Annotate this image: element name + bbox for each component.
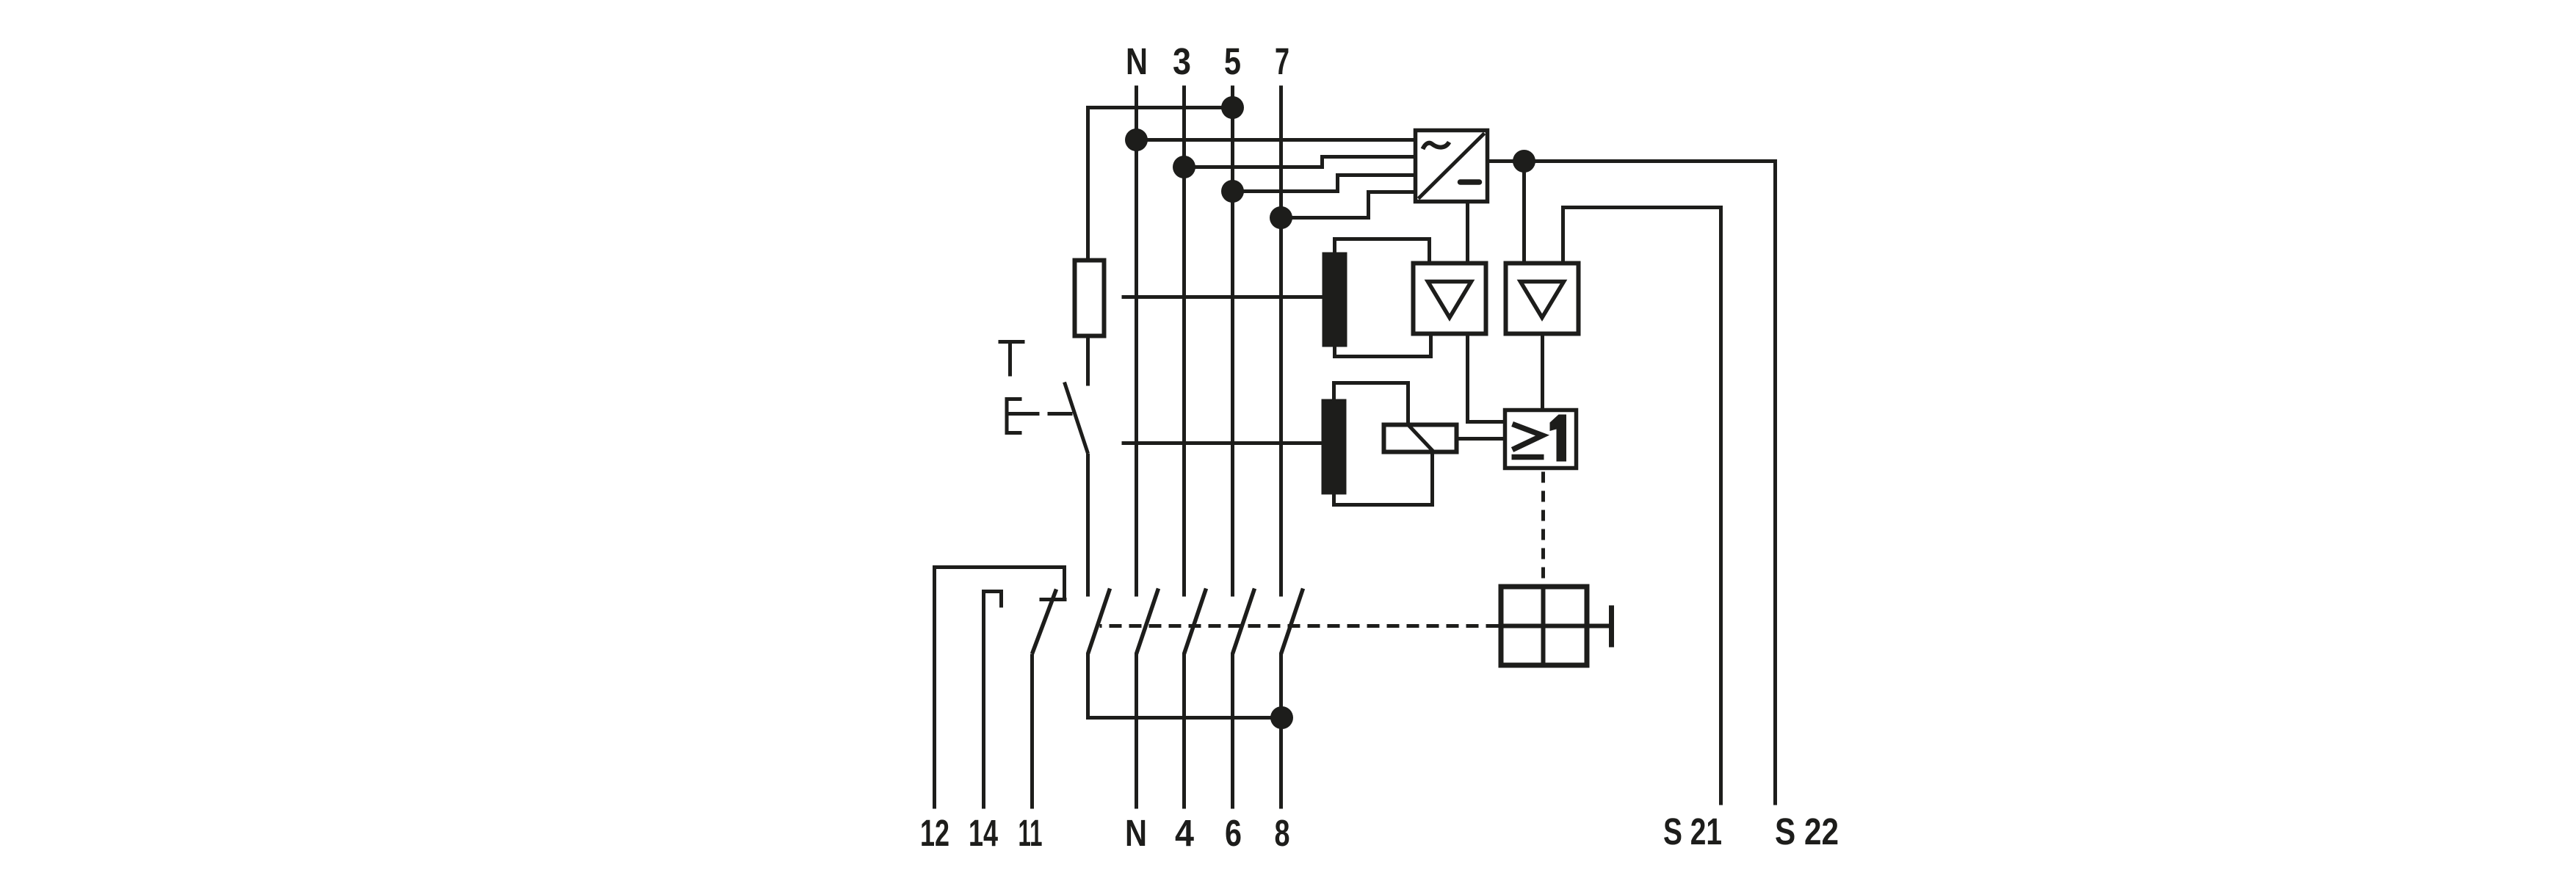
wire A from N to converter [1137,138,1414,142]
actuator right link [1590,624,1610,628]
svg-text:11: 11 [1019,812,1043,854]
converter tilde [1423,142,1450,150]
junction dot on line 5 lower [1221,180,1244,203]
aux contact 14 wire [984,592,1002,809]
svg-text:3: 3 [1173,40,1191,82]
resistor R test [1075,261,1104,336]
amplifier A1 triangle [1428,282,1472,318]
actuator cross [1499,584,1590,668]
wire A2 output to OR gate [1541,336,1544,409]
wire S21 elbow [1563,208,1721,805]
wire D from line 7 to converter [1281,192,1414,218]
test button link [1048,412,1073,416]
svg-text:S 22: S 22 [1775,811,1839,852]
pole blade N [1137,589,1159,654]
relay K1 box [1384,425,1457,452]
T mark of test button [999,342,1025,377]
svg-text:7: 7 [1275,40,1289,82]
amplifier A2 box [1506,264,1579,334]
wire to CT1 primary [1122,295,1323,299]
wire top-left elbow from line 5 to test resistor [1088,108,1233,258]
junction dot on line 3 [1173,156,1195,178]
CT2 secondary bar [1322,399,1347,495]
pole blade 6 [1233,589,1255,654]
CT1 winding wire top [1335,239,1430,261]
converter output wire to S22 [1489,162,1776,805]
wire to CT2 primary [1122,441,1322,445]
CT2 winding wire top [1334,383,1408,423]
wire A1 output to OR gate [1468,336,1506,422]
test switch blade [1065,383,1088,454]
svg-text:N: N [1126,40,1148,82]
node 3 top bus vertical [1182,86,1186,597]
aux contact 12 foot [1040,598,1067,601]
svg-text:14: 14 [969,812,998,854]
OR gate U2 box [1505,410,1577,468]
junction dot on line N [1125,128,1148,151]
node 5 top bus vertical [1231,86,1234,597]
converter diagonal [1419,134,1485,199]
wire below resistor [1086,338,1090,386]
actuator end stop [1609,606,1614,648]
wire test branch to pole [1086,454,1090,597]
junction dot on line 7 [1270,206,1292,229]
wire relay to OR gate [1459,437,1504,441]
CT2 winding wire bottom [1334,454,1433,505]
junction dot on line 5 [1221,96,1244,119]
node 6 bottom wire [1231,653,1234,809]
OR gate numeral 1 [1550,415,1567,462]
dashed trip link vertical [1541,472,1545,584]
CT1 winding wire bottom [1335,336,1431,357]
svg-text:S 21: S 21 [1663,811,1722,852]
dashed trip link horizontal [1100,624,1499,628]
node 8 bottom wire [1279,653,1283,809]
node N bottom wire [1135,653,1138,809]
node N top bus vertical [1135,86,1138,597]
wire C from line 5 to converter [1233,175,1414,192]
svg-text:4: 4 [1175,812,1195,854]
junction dot bottom [1270,706,1293,729]
converter U1 box [1416,131,1488,202]
actuator box [1501,587,1587,665]
pole blade 8 [1281,589,1303,654]
node 7 top bus vertical [1279,86,1283,597]
pole blade 4 [1184,589,1206,654]
test button bracket [1007,399,1040,433]
aux contact 11 wire [1030,654,1034,809]
amplifier A1 box [1414,264,1486,334]
svg-text:8: 8 [1275,812,1290,854]
junction dot output [1513,150,1535,173]
svg-text:5: 5 [1224,40,1241,82]
amplifier A2 triangle [1521,282,1564,318]
wire dot to amp2 [1522,162,1526,261]
CT1 secondary bar [1323,253,1347,347]
wire test pole lower to line 8 [1088,653,1282,718]
node 4 bottom wire [1182,653,1186,809]
aux contact 12 wire [935,568,1065,809]
svg-text:N: N [1125,812,1147,854]
OR gate greater-equal glyph [1512,424,1544,457]
converter minus [1461,179,1480,185]
aux blade 11 [1032,590,1057,654]
wire converter to A1 [1466,203,1469,261]
svg-text:12: 12 [920,812,949,854]
relay diagonal [1408,425,1434,452]
pole blade test [1088,589,1110,654]
svg-text:6: 6 [1225,812,1242,854]
wire B from line 3 to converter [1184,157,1414,167]
